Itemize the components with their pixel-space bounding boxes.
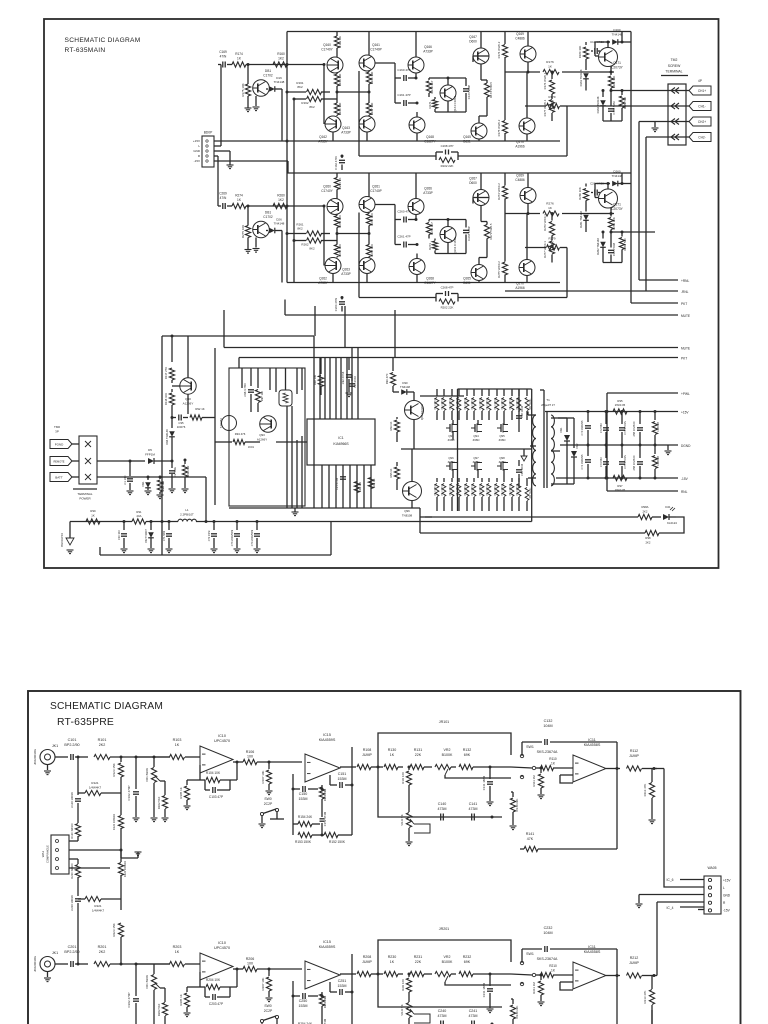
svg-text:R211 1M: R211 1M [532,982,536,994]
svg-text:D92: D92 [575,443,579,448]
wire net PKT lower [239,357,678,359]
svg-text:UPC4570: UPC4570 [214,739,230,743]
svg-text:R202 22K: R202 22K [441,306,454,310]
wire BD0P +15V [214,140,287,142]
capacitor C161 47P [395,102,401,104]
resistor R170 4K7 [428,78,430,80]
resistor R251 69K [321,992,323,996]
svg-text:Z36N: Z36N [473,460,480,464]
potentiometer VR2 B100K ch1 [435,764,451,769]
svg-text:C73 2200/50M: C73 2200/50M [231,530,234,546]
svg-text:R131: R131 [414,748,423,752]
wire CH1+ [655,90,689,92]
svg-text:R240 22K: R240 22K [515,1006,519,1019]
pin CH1+ arrow [671,88,679,94]
svg-text:Z36N: Z36N [499,460,506,464]
svg-text:69K: 69K [464,960,471,964]
resistor R221 1/4W4K7 [85,896,101,901]
mosfet Q94 Z36N [474,424,476,432]
transistor Q169 C4886 [520,46,536,62]
svg-text:R276: R276 [546,202,554,206]
svg-text:C99 100M: C99 100M [520,464,524,476]
svg-text:TN4148: TN4148 [400,385,410,389]
diode D16 TN4148 [266,88,268,90]
diode D5 FFP1M [130,460,145,462]
svg-text:C96 4.7/50: C96 4.7/50 [243,383,247,397]
capacitor C201 BP2.2/50 [55,963,68,965]
svg-text:C166 47/N: C166 47/N [334,156,338,169]
svg-text:TN8108: TN8108 [402,514,413,518]
resistor R123 15K [120,757,122,762]
svg-text:JUMP: JUMP [362,960,372,964]
wire output node ch1 [505,71,540,73]
svg-text:4P: 4P [698,79,702,83]
capacitor C120 100/16 [77,757,79,795]
svg-text:IC_6: IC_6 [667,878,674,882]
svg-text:100: 100 [247,962,253,966]
resistor R207 10K [268,969,270,976]
mosfet Q95 Z36N [500,424,502,432]
wire [415,32,417,58]
resistor R99 1K [86,519,100,524]
svg-text:PKT: PKT [681,357,687,361]
mosfet Q97 Z36N [474,462,476,470]
svg-text:10K 1/4W100: 10K 1/4W100 [435,397,437,410]
svg-text:25B 10V/100: 25B 10V/100 [632,455,636,471]
svg-text:+RNL: +RNL [681,279,689,283]
svg-text:C150: C150 [299,792,308,796]
wire [540,389,544,391]
svg-text:R204 10K: R204 10K [206,978,221,982]
svg-text:Q171: Q171 [613,61,621,65]
resistor R260 1K2 [273,203,287,208]
svg-text:R102 22K: R102 22K [441,164,454,168]
op-amp output wire ch2 [233,968,243,970]
wire [606,393,608,491]
resistor R153 150K [298,832,312,837]
svg-text:R180 10K: R180 10K [578,46,582,59]
pin CH2+ arrow [671,119,679,125]
svg-text:2W/0.05: 2W/0.05 [615,488,626,492]
svg-text:JUMP: JUMP [362,753,372,757]
resistor R281 10K [610,214,612,217]
resistor R94 476 [229,441,232,443]
svg-text:8K2: 8K2 [297,85,303,89]
wire [171,418,173,429]
svg-text:CH2-: CH2- [698,135,705,139]
svg-text:R111 1M: R111 1M [532,775,536,787]
svg-text:R201: R201 [98,945,107,949]
resistor R175w W/W0.2 [504,72,506,120]
resistor R91 20A [132,519,146,524]
transistor Q1B1 C1702 [253,80,270,97]
wire L1 row [70,521,132,523]
diode D262 TN4148 [602,232,604,239]
svg-text:C2073Y: C2073Y [611,207,623,211]
svg-text:2W/0.05: 2W/0.05 [615,403,626,407]
svg-text:C152 473M: C152 473M [323,811,327,826]
svg-text:VR2: VR2 [444,955,451,959]
resistor R28 10K [354,482,359,493]
capacitor C202 470P [135,964,137,996]
resistor R182 560 [621,91,623,96]
wire output node ch2 [505,213,540,215]
svg-text:BATT: BATT [55,475,63,479]
resistor R202 22K feedback [439,299,455,304]
svg-text:SW1: SW1 [526,952,534,956]
svg-text:10K 1/4W100: 10K 1/4W100 [450,483,452,496]
svg-text:JR101: JR101 [439,720,449,724]
svg-text:POWER: POWER [79,497,91,501]
svg-text:JK020030G: JK020030G [33,748,37,765]
svg-text:L: L [198,144,200,148]
svg-text:1K: 1K [551,969,556,973]
wire [313,336,315,508]
svg-text:C250: C250 [299,999,308,1003]
diode D21 KL0124 LED [652,516,661,518]
capacitor C203 47P [205,996,210,998]
svg-text:R92 1K: R92 1K [195,407,204,411]
ground BD0P [227,164,234,166]
svg-text:C140: C140 [438,802,447,806]
connector BD0P [202,136,214,167]
svg-text:153M: 153M [338,777,347,781]
svg-text:IC_4: IC_4 [667,906,674,910]
svg-text:MUTE: MUTE [681,314,690,318]
svg-text:473M: 473M [438,807,447,811]
svg-text:10K 1/4W100: 10K 1/4W100 [495,483,497,496]
transistor Q163 A733P [359,116,375,132]
svg-text:+15V: +15V [681,411,689,415]
potentiometer VR2 B100K ch2 [435,971,451,976]
svg-text:Z36N: Z36N [473,438,480,442]
svg-text:VR1 B20K: VR1 B20K [145,975,149,989]
svg-text:Q169: Q169 [516,32,524,36]
svg-text:JK01: JK01 [248,445,255,449]
svg-text:R177 WW0.1: R177 WW0.1 [543,99,547,116]
capacitor C99 100M [518,460,520,466]
svg-text:R107 10K: R107 10K [261,771,265,784]
svg-text:D261 TN4148: D261 TN4148 [579,211,583,228]
resistor R220 1W100 [69,858,78,860]
svg-text:A733Y: A733Y [318,281,328,285]
svg-text:C21 473M: C21 473M [335,478,339,490]
svg-text:10K 1/4W100: 10K 1/4W100 [517,397,519,410]
svg-text:10K 1/4W100: 10K 1/4W100 [510,397,512,410]
svg-text:R207 10K: R207 10K [261,978,265,991]
resistor R178 W/W0.5 [549,100,554,113]
svg-text:C132: C132 [544,719,553,723]
svg-text:VR-R 9K: VR-R 9K [400,814,404,825]
resistor R174 1K [232,62,246,67]
resistor R171 390 [434,97,436,99]
op-amp output wire ch1 [233,761,243,763]
svg-text:B100K: B100K [442,753,453,757]
svg-text:2K2: 2K2 [99,743,106,747]
svg-text:C1 10C: C1 10C [123,475,127,484]
wire [607,184,609,190]
wire [452,420,454,424]
wire row1 to WA05 L [664,769,704,888]
svg-text:47K: 47K [527,837,534,841]
svg-text:R96 470: R96 470 [385,373,389,384]
svg-text:R: R [723,901,726,905]
wire power block bottom rail [229,507,420,509]
diode D94 TN4148 [169,431,175,437]
wire top rail ch1 [287,31,631,33]
wire lower rail ch1 [287,140,560,142]
svg-text:R21 1K: R21 1K [372,478,376,487]
svg-text:UPC4570: UPC4570 [214,946,230,950]
svg-text:RT-635MAIN: RT-635MAIN [65,47,106,54]
svg-text:R164 100: R164 100 [338,73,342,86]
svg-text:D94 TN4148: D94 TN4148 [165,429,169,445]
svg-text:R101: R101 [98,738,107,742]
svg-text:DB1: DB1 [265,69,271,73]
resistor R262 8K2 [294,240,306,242]
svg-text:B100K: B100K [442,960,453,964]
transistor Q262 A733Y [325,258,341,274]
svg-text:10K 1/4W100: 10K 1/4W100 [487,397,489,410]
svg-text:C72 56C: C72 56C [599,423,603,433]
wire [314,306,316,336]
transistor Q95 A1626H [405,401,424,420]
svg-text:D260: D260 [613,170,621,174]
wire +PWL rail [607,392,678,394]
svg-text:R152 150K: R152 150K [329,840,346,844]
ground DGND [667,445,669,450]
svg-text:A733P: A733P [341,131,351,135]
wire [527,32,529,47]
svg-text:R202 510: R202 510 [157,1003,161,1016]
svg-text:SCHEMATIC DIAGRAM: SCHEMATIC DIAGRAM [65,37,141,44]
svg-text:C264 56M: C264 56M [612,242,616,256]
svg-text:R95 1K: R95 1K [389,468,393,477]
svg-text:1K: 1K [548,65,553,69]
svg-text:20A: 20A [137,514,142,518]
resistor R275 10K to ground [247,206,249,226]
transistor Q96 TN9148 [403,482,422,501]
resistor R98A 2K2 [420,516,432,518]
svg-text:1/4W10B: 1/4W10B [657,422,660,432]
svg-text:IC1: IC1 [338,436,343,440]
pin BD0P -15V [206,160,208,162]
op-amp IC11 KIA4558S ch2 [573,962,606,989]
wire [238,358,240,369]
svg-text:C2 10/E: C2 10/E [173,467,177,477]
svg-text:C1740P: C1740P [370,48,382,52]
capacitor C101 BP2.2/50 [55,756,68,758]
svg-text:Q168: Q168 [426,135,434,139]
connector WA05 [704,876,721,914]
wire net MUTE [285,314,678,316]
svg-text:Q267: Q267 [469,177,477,181]
svg-text:TERMINAL: TERMINAL [665,70,682,74]
svg-text:153M: 153M [338,984,347,988]
svg-text:R121: R121 [91,781,99,785]
svg-text:C201: C201 [68,945,77,949]
resistor R273 5W0.5 [480,206,482,222]
resistor R222 1/4W1K [69,867,110,869]
svg-text:10K 1/4W100: 10K 1/4W100 [517,483,519,496]
wire mosfet gate bus [420,395,464,397]
diode D91b [147,477,149,480]
svg-text:VR-R 9K: VR-R 9K [400,1004,404,1015]
svg-text:DB1: DB1 [265,211,271,215]
svg-text:C20 47/16: C20 47/16 [353,375,357,388]
svg-text:10K 1/4W100: 10K 1/4W100 [487,483,489,496]
svg-text:R270 4K7: R270 4K7 [430,222,434,235]
capacitor C72b 1NM [213,522,215,531]
svg-text:SKS-23674A: SKS-23674A [537,750,558,754]
svg-text:-15V: -15V [194,159,200,163]
resistor R175 10K to ground [247,65,249,85]
svg-text:+15V: +15V [193,139,200,143]
wires IC1 top pins [319,358,321,420]
wire input to base ch2 [272,205,324,207]
resistor R77b 1/4W10B [654,445,656,454]
svg-text:C120 100/16: C120 100/16 [70,792,74,808]
ground near terminal [654,122,656,128]
svg-text:A733P: A733P [423,50,433,54]
svg-text:R118 10K: R118 10K [164,393,168,405]
wire BD0P L to C169 [214,145,221,147]
wire left power column [161,336,163,555]
svg-text:R1R 160: R1R 160 [401,772,405,784]
svg-text:C232: C232 [544,926,553,930]
svg-text:1K: 1K [237,198,242,202]
capacitor C266 100P [465,222,467,228]
svg-text:A1266Y: A1266Y [257,438,267,442]
resistor R-13b 43K visible bottom right [651,1010,653,1024]
svg-text:R213 47K: R213 47K [643,991,647,1004]
svg-text:TN4148: TN4148 [612,174,623,178]
svg-text:Q165: Q165 [463,135,471,139]
svg-text:R154 24K: R154 24K [298,815,313,819]
svg-text:BP2.2/50: BP2.2/50 [64,950,79,954]
svg-text:Q271: Q271 [613,203,621,207]
svg-text:2.2PB/10T: 2.2PB/10T [180,513,194,517]
svg-text:TN4148: TN4148 [274,222,285,226]
svg-text:Q270: Q270 [516,282,524,286]
op-amp IC15 KIA4559S ch2 [305,961,340,989]
capacitor C75 470/1N [621,445,623,458]
resistor R77a 1/4W10B [654,412,656,421]
wire mosfet bottom bus [331,521,532,523]
svg-text:22K: 22K [415,960,422,964]
wire net PKT [631,302,678,304]
panel border RT-635MAIN [44,19,719,568]
svg-text:1K2: 1K2 [278,198,284,202]
svg-text:R251 69K: R251 69K [323,996,327,1009]
wire [161,554,163,556]
svg-text:R162: R162 [301,101,309,105]
svg-text:047 SUNL: 047 SUNL [529,398,532,410]
resistor R212 JUMP [606,975,620,977]
svg-text:R232: R232 [463,955,472,959]
wire [480,173,482,190]
resistor R223 15K [120,900,122,910]
wire emitter join [337,233,369,235]
transistor Q161 C1740Y [359,55,375,71]
svg-text:10K 1/4W100: 10K 1/4W100 [472,397,474,410]
svg-text:C166 100P: C166 100P [467,85,471,100]
svg-text:R210: R210 [549,964,557,968]
svg-text:R174: R174 [235,52,243,56]
svg-text:C1740Y: C1740Y [321,48,333,52]
resistor R110 1K [536,767,540,769]
svg-text:1K: 1K [551,762,556,766]
svg-text:C161 47P: C161 47P [397,93,410,97]
resistor R21 1K [368,478,373,489]
svg-text:153M: 153M [299,797,308,801]
resistor R208 JUMP [357,971,371,976]
diode D26 TN4148 [266,230,268,232]
svg-text:R98: R98 [645,536,651,540]
resistor R97r ZW/0.05 [613,475,627,480]
svg-text:C203 47P: C203 47P [209,1002,223,1006]
svg-text:C75 470/1N: C75 470/1N [623,455,627,469]
resistor R274 1K [232,203,246,208]
mosfet resistor comb upper [436,389,438,396]
wire IC15 out ch1 [340,766,356,768]
op-amp IC11 KIA4558S ch1 [573,755,606,782]
resistor R107 10K [268,762,270,769]
resistor R270 4K7 [428,220,430,222]
capacitor C72 56C [605,412,607,425]
svg-text:Q167: Q167 [469,35,477,39]
svg-text:10K 1/4W100: 10K 1/4W100 [450,397,452,410]
svg-text:C252 473M: C252 473M [323,1018,327,1024]
svg-text:FGND: FGND [55,442,64,446]
svg-text:R265 100: R265 100 [370,213,374,226]
wire -15V rail [556,477,678,479]
resistor R117 27K [171,336,173,362]
svg-text:R113 47K: R113 47K [643,784,647,797]
svg-text:A1966: A1966 [515,286,524,290]
svg-text:C71 3300/35: C71 3300/35 [580,454,584,469]
transistor Q269 C4886 [520,188,536,204]
svg-text:KIA4558S: KIA4558S [584,743,601,747]
svg-text:473M: 473M [469,807,478,811]
wire [527,173,529,188]
svg-text:R120 1W100: R120 1W100 [70,823,74,839]
capacitor C73b 2200/50M [236,522,238,531]
svg-text:R90 56B: R90 56B [161,481,165,492]
wire inter-channel links [286,141,288,173]
svg-text:047 SUNL: 047 SUNL [529,487,532,499]
capacitor C168e 4.7/50 [594,48,596,54]
capacitor C240 473M [440,1021,442,1024]
svg-text:C251: C251 [338,979,347,983]
svg-text:C168 47P: C168 47P [441,144,454,148]
transistor Q2B1 C1702 [253,221,270,238]
svg-text:C269: C269 [219,192,227,196]
svg-text:CH1-: CH1- [698,104,705,108]
potentiometer VR1 B20K [153,757,155,767]
resistor R274w W/W0.2 [504,173,506,186]
resistor R280 10K [585,184,587,187]
svg-text:JK1: JK1 [52,744,58,748]
resistor R154 24K [298,821,312,826]
capacitor C92 47/16 [348,358,350,371]
diode D161 TN4148 [583,73,589,79]
wire [223,310,225,348]
wire top rail ch2 [287,172,631,174]
svg-text:C4886: C4886 [515,178,525,182]
wire lower rail ch2 [287,282,560,284]
svg-text:R267 100: R267 100 [370,244,374,257]
